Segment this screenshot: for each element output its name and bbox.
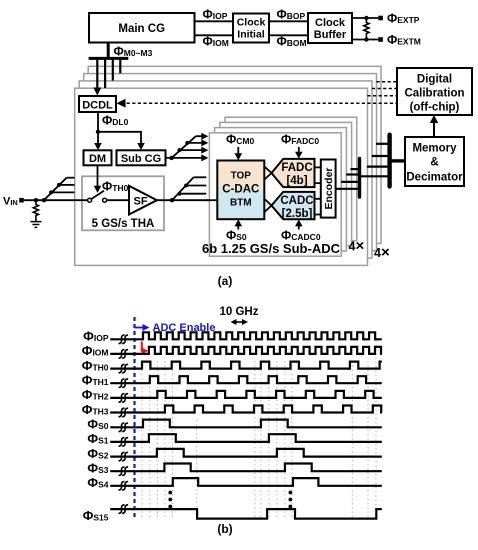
block Clock Buffer bbox=[308, 13, 352, 43]
wire bus to memory bbox=[390, 159, 405, 162]
block DM bbox=[84, 150, 112, 165]
arrow 10GHz period bbox=[234, 321, 246, 323]
block Main CG bbox=[89, 13, 195, 43]
node DL0 bbox=[96, 130, 100, 134]
wire encoder out ch1 bbox=[336, 188, 360, 190]
wire M1 drop bbox=[104, 58, 106, 88]
fan diagonal vin bbox=[44, 178, 67, 201]
break symbol S15 bbox=[119, 505, 125, 514]
waveform PhiTH1 bbox=[110, 376, 382, 383]
box THA bbox=[82, 176, 164, 230]
wire buffer to EXTM bbox=[352, 39, 378, 41]
switch circle left bbox=[88, 198, 92, 202]
svg-text:4×: 4× bbox=[374, 244, 390, 261]
waveform PhiS3 bbox=[110, 464, 382, 472]
svg-text:BTM: BTM bbox=[230, 198, 252, 209]
svg-text:DCDL: DCDL bbox=[82, 100, 113, 112]
svg-text:[4b]: [4b] bbox=[286, 175, 307, 187]
pad PhiEXTM bbox=[378, 37, 383, 42]
wire buffer to EXTP bbox=[352, 17, 378, 19]
sf stub ch3 bbox=[186, 185, 206, 187]
bus bar big bbox=[387, 135, 391, 187]
wire SubCG out bbox=[166, 157, 205, 159]
node subcg fan bbox=[169, 156, 173, 160]
wire encoder out ch2 bbox=[341, 181, 359, 183]
wires cadc-encoder bbox=[315, 199, 321, 215]
wire M0 drop to DCDL bbox=[96, 58, 98, 88]
svg-text:Buffer: Buffer bbox=[314, 29, 347, 41]
svg-text:Initial: Initial bbox=[237, 29, 265, 41]
wires fadc-encoder bbox=[315, 167, 321, 183]
node sf fan bbox=[170, 198, 174, 202]
svg-text:Digital: Digital bbox=[417, 74, 452, 86]
wire stub y143 bbox=[376, 143, 390, 145]
subadc copy rect 4 bbox=[225, 117, 357, 240]
arrowhead into DCDL bbox=[117, 99, 126, 108]
node vin fan bbox=[42, 198, 46, 202]
sf stub ch4 bbox=[194, 176, 207, 178]
vin stub ch4 bbox=[67, 177, 75, 179]
waveform PhiTH2 bbox=[110, 391, 382, 398]
sf stub ch2 bbox=[179, 193, 206, 195]
waveform PhiS2 bbox=[110, 449, 382, 457]
svg-text:VIN: VIN bbox=[3, 196, 18, 208]
fan diagonal sf bbox=[172, 177, 194, 200]
channel copy rect 3 bbox=[84, 74, 377, 251]
wire SF out bbox=[157, 199, 217, 201]
break symbol TH1 bbox=[119, 379, 125, 388]
dashed wire: ch2 to calibration bbox=[367, 95, 397, 97]
break symbol TH0 bbox=[119, 364, 125, 373]
arrow CM0 bbox=[237, 147, 239, 157]
wire M2 drop bbox=[112, 58, 114, 80]
dashed wire: ch4 to calibration bbox=[376, 81, 397, 83]
arrow FADC0 bbox=[298, 147, 300, 155]
svg-text:Encoder: Encoder bbox=[323, 167, 335, 209]
arrow S0 bbox=[237, 223, 239, 230]
channel copy rect 4 bbox=[88, 66, 381, 243]
vertical ellipsis right bbox=[289, 491, 293, 495]
break symbol S4 bbox=[119, 482, 125, 491]
subadc copy rect 1 (front) bbox=[209, 133, 341, 256]
buffer SF bbox=[129, 186, 157, 215]
svg-text:Decimator: Decimator bbox=[406, 172, 463, 184]
arrow memory to calibration bbox=[433, 119, 435, 137]
wire stub y156 bbox=[372, 155, 390, 157]
svg-text:Clock: Clock bbox=[315, 17, 346, 29]
svg-text:Sub CG: Sub CG bbox=[121, 153, 161, 165]
channel copy rect 2 bbox=[79, 81, 372, 258]
svg-text:(b): (b) bbox=[217, 522, 232, 536]
switch lever bbox=[91, 191, 104, 199]
wires cdac-fadc bbox=[264, 166, 271, 179]
wire encoder out ch4 bbox=[351, 168, 360, 170]
svg-text:(off-chip): (off-chip) bbox=[410, 102, 460, 114]
svg-text:10 GHz: 10 GHz bbox=[220, 306, 259, 318]
svg-text:TOP: TOP bbox=[231, 171, 252, 182]
wire ClockInitial-ClockBuffer top bbox=[269, 20, 308, 22]
arrow CADC0 bbox=[298, 223, 300, 230]
input termination resistor bbox=[33, 200, 38, 221]
waveform PhiTH3 bbox=[110, 406, 382, 413]
block Encoder bbox=[321, 160, 336, 218]
break symbol TH2 bbox=[119, 394, 125, 403]
svg-text:5 GS/s THA: 5 GS/s THA bbox=[92, 218, 155, 230]
dashed wire: ch3 to calibration bbox=[372, 88, 397, 90]
capacitor DAC block bbox=[217, 161, 264, 220]
wire MainCG-ClockInitial bottom bbox=[195, 34, 234, 36]
block DCDL bbox=[79, 96, 116, 112]
svg-text:Memory: Memory bbox=[412, 143, 457, 155]
break symbol S3 bbox=[119, 467, 125, 476]
svg-text:6b 1.25 GS/s Sub-ADC: 6b 1.25 GS/s Sub-ADC bbox=[202, 241, 341, 256]
wire MainCG-ClockInitial top bbox=[195, 20, 234, 22]
break symbol S1 bbox=[119, 438, 125, 447]
vin stub ch3 bbox=[59, 184, 75, 186]
flash ADC FADC bbox=[272, 159, 315, 187]
red arrow IOP to IOM edge bbox=[142, 342, 145, 351]
wire stub y166 bbox=[367, 166, 390, 168]
channel copy rect 1 (front) bbox=[75, 88, 368, 265]
svg-text:DM: DM bbox=[89, 153, 106, 165]
break symbol TH3 bbox=[119, 408, 125, 417]
break symbol S2 bbox=[119, 452, 125, 461]
waveform PhiS15 bbox=[110, 509, 382, 518]
svg-text:FADC: FADC bbox=[281, 162, 312, 174]
fan diagonal subcg bbox=[172, 136, 196, 158]
bus bar small bbox=[358, 159, 361, 198]
node termination bbox=[34, 198, 38, 202]
svg-text:Main CG: Main CG bbox=[118, 23, 165, 35]
waveform PhiIOP bbox=[110, 332, 382, 339]
vin stub ch2 bbox=[51, 191, 74, 193]
blue dashed enable line bbox=[133, 317, 135, 520]
block Memory & Decimator bbox=[405, 137, 464, 186]
wire DCDL down bbox=[97, 112, 99, 132]
svg-text:CADC: CADC bbox=[280, 195, 313, 207]
wire DM down to switch bbox=[97, 165, 99, 189]
svg-text:&: & bbox=[430, 157, 438, 169]
wire switch to SF bbox=[107, 199, 129, 201]
svg-text:Calibration: Calibration bbox=[404, 88, 464, 100]
ground bbox=[30, 222, 41, 228]
clock arrow ch3 bbox=[187, 142, 204, 144]
waveform PhiS4 bbox=[110, 478, 382, 486]
wire M3 drop bbox=[119, 58, 121, 73]
termination resistor bbox=[364, 18, 369, 40]
wire to DM bbox=[97, 132, 99, 147]
svg-text:4×: 4× bbox=[349, 238, 365, 255]
dashed wire: calibration to DCDL (long) bbox=[121, 102, 397, 104]
coarse ADC CADC bbox=[272, 192, 315, 219]
wire sf main into C-DAC bbox=[206, 199, 217, 201]
break symbol S0 bbox=[119, 423, 125, 432]
break symbol IOM bbox=[119, 350, 125, 359]
switch circle right bbox=[103, 198, 107, 202]
subadc copy rect 2 bbox=[215, 128, 347, 251]
node on EXTP line bbox=[364, 16, 368, 20]
timing grid dotted lines bbox=[142, 332, 376, 519]
svg-text:Clock: Clock bbox=[237, 17, 266, 29]
wire to SubCG bbox=[98, 132, 141, 147]
clock arrow ch2 bbox=[179, 149, 204, 151]
input VIN pad bbox=[19, 198, 24, 203]
blue arrow ADC Enable bbox=[135, 327, 146, 329]
block Digital Calibration bbox=[397, 68, 472, 115]
subadc copy rect 3 bbox=[220, 122, 352, 245]
wire VIN to switch bbox=[24, 199, 88, 201]
waveform PhiS1 bbox=[110, 434, 382, 442]
clock arrow ch4 bbox=[196, 135, 204, 137]
svg-text:(a): (a) bbox=[218, 274, 233, 288]
waveform PhiTH0 bbox=[110, 362, 382, 369]
vertical ellipsis left bbox=[168, 491, 172, 495]
svg-text:SF: SF bbox=[134, 196, 148, 208]
break symbol IOP bbox=[119, 335, 125, 344]
bus bar M0-M3 bbox=[89, 57, 129, 60]
wire ClockInitial-ClockBuffer bottom bbox=[269, 34, 308, 36]
svg-text:[2.5b]: [2.5b] bbox=[282, 208, 313, 220]
waveform PhiS0 bbox=[110, 420, 382, 428]
wires cdac-cadc bbox=[264, 199, 271, 212]
clock arrowhead ch1 bbox=[201, 154, 208, 161]
wire MainCG down bbox=[107, 43, 110, 58]
wire bar-bar bbox=[360, 175, 390, 177]
wire encoder out ch3 bbox=[346, 173, 359, 175]
svg-text:C-DAC: C-DAC bbox=[222, 184, 259, 196]
block Clock Initial bbox=[233, 14, 269, 43]
pad PhiEXTP bbox=[378, 16, 383, 21]
node on EXTM line bbox=[364, 37, 368, 41]
waveform PhiIOM bbox=[110, 347, 382, 354]
block Sub CG bbox=[117, 150, 166, 165]
